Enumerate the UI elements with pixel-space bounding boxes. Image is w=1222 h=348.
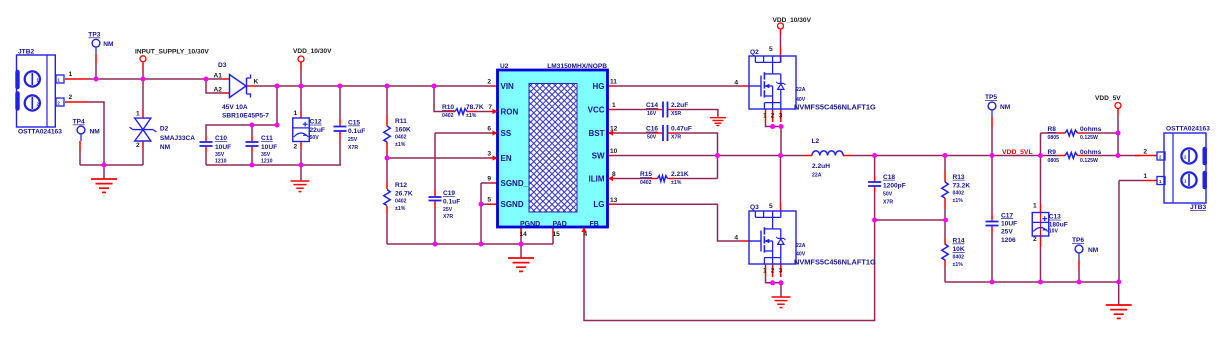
svg-text:TP6: TP6	[1072, 237, 1084, 244]
svg-text:OSTTA024163: OSTTA024163	[1166, 126, 1210, 133]
svg-text:2: 2	[771, 268, 775, 275]
svg-text:±1%: ±1%	[671, 180, 682, 186]
svg-text:BST: BST	[589, 129, 605, 138]
svg-text:X7R: X7R	[348, 145, 358, 151]
svg-text:10: 10	[610, 148, 618, 155]
svg-text:R10: R10	[442, 104, 454, 111]
svg-text:±1%: ±1%	[953, 262, 964, 268]
svg-text:K: K	[254, 79, 259, 86]
svg-text:0402: 0402	[640, 180, 652, 186]
svg-text:C14: C14	[646, 102, 658, 109]
svg-text:SGND: SGND	[501, 200, 524, 209]
svg-text:35V: 35V	[215, 152, 225, 158]
svg-text:VIN: VIN	[501, 82, 515, 91]
svg-text:1210: 1210	[215, 158, 227, 164]
svg-text:15: 15	[553, 231, 561, 238]
svg-text:X5R: X5R	[671, 111, 681, 117]
svg-text:2: 2	[69, 94, 73, 101]
svg-text:±1%: ±1%	[395, 142, 406, 148]
svg-text:C11: C11	[261, 135, 273, 142]
svg-text:2: 2	[1033, 236, 1037, 243]
svg-text:R9: R9	[1048, 149, 1057, 156]
svg-text:1: 1	[1143, 173, 1147, 180]
svg-text:PAD: PAD	[553, 221, 567, 228]
svg-text:NM: NM	[103, 41, 114, 48]
svg-text:R8: R8	[1048, 126, 1057, 133]
svg-text:±1%: ±1%	[395, 206, 406, 212]
svg-text:NVMFS5C456NLAFT1G: NVMFS5C456NLAFT1G	[794, 103, 876, 112]
svg-text:2: 2	[294, 143, 298, 150]
svg-text:TP4: TP4	[73, 119, 85, 126]
svg-text:VDD_5V: VDD_5V	[1095, 95, 1121, 102]
svg-text:10UF: 10UF	[215, 144, 231, 151]
svg-text:C16: C16	[646, 126, 658, 133]
svg-text:X7R: X7R	[883, 199, 893, 205]
svg-text:14: 14	[520, 231, 528, 238]
svg-text:R14: R14	[953, 238, 965, 245]
svg-text:10UF: 10UF	[1001, 221, 1017, 228]
svg-text:4: 4	[734, 235, 738, 242]
svg-text:22A: 22A	[796, 243, 806, 249]
svg-text:C18: C18	[883, 174, 895, 181]
svg-text:VDD_10/30V: VDD_10/30V	[293, 48, 332, 55]
svg-text:1206: 1206	[1001, 237, 1016, 244]
svg-text:1: 1	[763, 268, 767, 275]
svg-text:VCC: VCC	[588, 106, 605, 115]
svg-text:RON: RON	[501, 108, 519, 117]
svg-text:160K: 160K	[395, 127, 411, 134]
svg-text:1: 1	[294, 110, 298, 117]
svg-text:6: 6	[487, 126, 491, 133]
svg-text:7: 7	[488, 104, 492, 111]
svg-text:5: 5	[769, 46, 773, 53]
svg-text:HG: HG	[593, 82, 605, 91]
svg-text:JTB2: JTB2	[18, 49, 34, 56]
svg-text:SMAJ33CA: SMAJ33CA	[160, 135, 195, 142]
svg-text:12: 12	[610, 126, 618, 133]
svg-text:OSTTA024163: OSTTA024163	[18, 128, 62, 135]
svg-text:1: 1	[1033, 203, 1037, 210]
svg-text:R12: R12	[395, 182, 407, 189]
svg-text:D3: D3	[218, 62, 227, 69]
svg-text:Q2: Q2	[750, 49, 759, 56]
svg-text:JTB3: JTB3	[1190, 204, 1206, 211]
svg-text:13: 13	[610, 197, 618, 204]
svg-text:FB: FB	[590, 221, 599, 228]
svg-text:0ohms: 0ohms	[1080, 149, 1102, 156]
svg-text:0.125W: 0.125W	[1080, 135, 1098, 141]
svg-text:10UF: 10UF	[261, 144, 277, 151]
svg-text:0402: 0402	[442, 113, 454, 119]
svg-text:5: 5	[769, 203, 773, 210]
svg-text:0402: 0402	[395, 135, 407, 141]
svg-text:SW: SW	[592, 152, 605, 161]
svg-text:3: 3	[779, 268, 783, 275]
svg-text:1: 1	[763, 113, 767, 120]
svg-text:50V: 50V	[883, 191, 893, 197]
svg-text:1210: 1210	[261, 158, 273, 164]
svg-text:16V: 16V	[647, 111, 657, 117]
svg-text:9: 9	[487, 176, 491, 183]
svg-text:25V: 25V	[1001, 229, 1013, 236]
svg-text:35V: 35V	[261, 152, 271, 158]
svg-text:5: 5	[487, 197, 491, 204]
svg-text:2.2uH: 2.2uH	[812, 163, 830, 170]
svg-text:25V: 25V	[348, 137, 358, 143]
svg-text:R11: R11	[395, 118, 407, 125]
svg-text:X7R: X7R	[671, 135, 681, 141]
svg-text:R15: R15	[640, 171, 652, 178]
svg-text:C15: C15	[348, 120, 360, 127]
svg-text:R13: R13	[953, 174, 965, 181]
svg-text:26.7K: 26.7K	[395, 191, 413, 198]
svg-text:ILIM: ILIM	[589, 175, 605, 184]
svg-text:1: 1	[612, 102, 616, 109]
svg-text:2: 2	[1143, 149, 1147, 156]
svg-text:L2: L2	[812, 138, 820, 145]
svg-text:4: 4	[734, 80, 738, 87]
svg-text:0.125W: 0.125W	[1080, 158, 1098, 164]
svg-text:25V: 25V	[443, 207, 453, 213]
svg-text:D2: D2	[160, 126, 169, 133]
svg-text:0402: 0402	[953, 191, 965, 197]
svg-text:±1%: ±1%	[953, 198, 964, 204]
svg-text:22uF: 22uF	[310, 127, 325, 134]
svg-text:C19: C19	[443, 190, 455, 197]
svg-text:78.7K: 78.7K	[466, 104, 484, 111]
svg-text:LM3150MHX/NOPB: LM3150MHX/NOPB	[547, 63, 607, 70]
svg-text:1: 1	[136, 111, 140, 118]
svg-text:0.47uF: 0.47uF	[671, 126, 692, 133]
svg-text:50V: 50V	[647, 135, 657, 141]
svg-text:U2: U2	[500, 63, 509, 70]
svg-text:C13: C13	[1049, 214, 1061, 221]
svg-text:2: 2	[136, 142, 140, 149]
svg-text:Q3: Q3	[750, 204, 759, 211]
svg-text:3: 3	[779, 113, 783, 120]
svg-text:C12: C12	[310, 119, 322, 126]
svg-text:X7R: X7R	[443, 214, 453, 220]
svg-text:22A: 22A	[812, 173, 822, 179]
svg-text:NM: NM	[160, 144, 171, 151]
svg-text:0.1uF: 0.1uF	[443, 198, 460, 205]
svg-text:A1: A1	[214, 73, 223, 80]
svg-text:NM: NM	[90, 129, 101, 136]
svg-text:45V 10A: 45V 10A	[222, 104, 248, 111]
svg-text:C17: C17	[1001, 212, 1013, 219]
svg-text:TP5: TP5	[985, 94, 997, 101]
svg-text:NM: NM	[1000, 104, 1011, 111]
svg-text:1200pF: 1200pF	[883, 183, 906, 190]
svg-text:2.21K: 2.21K	[671, 171, 689, 178]
svg-text:0ohms: 0ohms	[1080, 126, 1102, 133]
svg-text:10K: 10K	[953, 246, 965, 253]
svg-text:VDD_5VL: VDD_5VL	[1002, 149, 1033, 156]
svg-text:1: 1	[69, 71, 73, 78]
svg-text:INPUT_SUPPLY_10/30V: INPUT_SUPPLY_10/30V	[135, 49, 209, 56]
svg-text:SGND_: SGND_	[501, 179, 529, 188]
svg-text:TP3: TP3	[88, 32, 100, 39]
svg-text:SBR10E45P5-7: SBR10E45P5-7	[222, 113, 269, 120]
svg-text:LG: LG	[593, 200, 604, 209]
svg-text:NVMFS5C456NLAFT1G: NVMFS5C456NLAFT1G	[794, 258, 876, 267]
svg-text:NM: NM	[1088, 247, 1099, 254]
svg-text:SS: SS	[501, 129, 512, 138]
svg-text:11: 11	[610, 79, 617, 86]
svg-text:C10: C10	[215, 135, 227, 142]
svg-text:0402: 0402	[953, 254, 965, 260]
svg-text:2.2uF: 2.2uF	[671, 102, 688, 109]
svg-text:2: 2	[771, 113, 775, 120]
svg-text:0402: 0402	[395, 199, 407, 205]
svg-text:22A: 22A	[796, 87, 806, 93]
svg-text:PGND: PGND	[520, 221, 540, 228]
svg-text:10V: 10V	[1049, 229, 1059, 235]
svg-text:EN: EN	[501, 154, 512, 163]
svg-text:0805: 0805	[1048, 158, 1060, 164]
svg-text:73.2K: 73.2K	[953, 182, 971, 189]
svg-text:8: 8	[612, 171, 616, 178]
svg-text:4: 4	[584, 231, 588, 238]
svg-text:3: 3	[487, 151, 491, 158]
svg-text:50V: 50V	[310, 135, 320, 141]
svg-text:A2: A2	[214, 87, 223, 94]
svg-text:0805: 0805	[1048, 135, 1060, 141]
svg-text:±1%: ±1%	[466, 113, 477, 119]
svg-text:2: 2	[487, 79, 491, 86]
svg-text:180uF: 180uF	[1049, 222, 1068, 229]
svg-text:0.1uF: 0.1uF	[348, 128, 365, 135]
svg-text:VDD_10/30V: VDD_10/30V	[773, 17, 812, 24]
